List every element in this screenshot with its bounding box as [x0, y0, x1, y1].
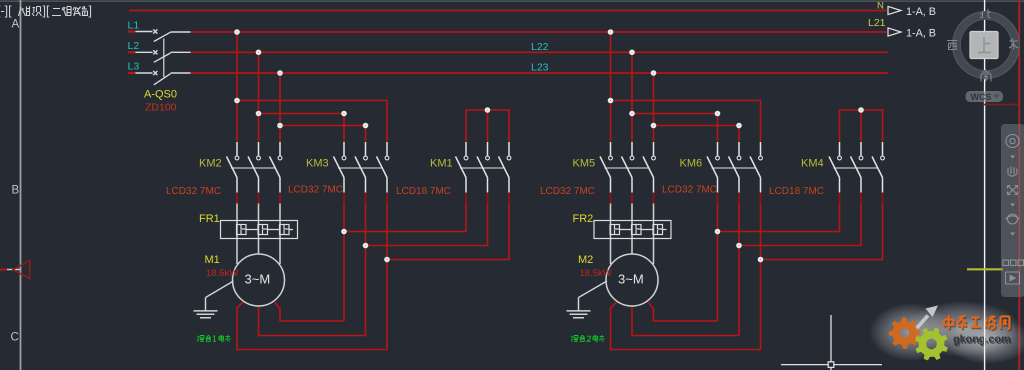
svg-text:LCD18 7MC: LCD18 7MC	[396, 186, 451, 197]
junction dot centers	[236, 31, 861, 260]
svg-text:LCD32 7MC: LCD32 7MC	[166, 186, 221, 197]
svg-text:M2: M2	[578, 254, 593, 266]
svg-text:1-A, B: 1-A, B	[906, 6, 936, 18]
ViewCube compass ring	[957, 16, 1016, 75]
wire: L21 rail	[191, 31, 887, 33]
ViewCube char 上	[978, 37, 991, 53]
svg-text:M1: M1	[205, 254, 220, 266]
svg-text:N: N	[877, 0, 884, 11]
svg-text:1-A, B: 1-A, B	[906, 27, 936, 39]
ViewCube top face square	[970, 32, 998, 59]
svg-text:L21: L21	[868, 17, 886, 29]
WCS box	[966, 91, 1004, 102]
label 混合2 电机 (mixer 2 motor, green CJK)	[571, 335, 604, 342]
wire: L1 branch to KM3 pole3	[237, 101, 387, 142]
junction: KM3 output to KM1 link tees	[341, 229, 390, 263]
svg-text:FR1: FR1	[199, 213, 220, 225]
wire: L2 drop to KM2 pole2	[258, 52, 260, 141]
svg-text:L3: L3	[128, 60, 140, 72]
white crosshair-extension vertical line	[984, 0, 986, 370]
svg-text:C: C	[11, 332, 19, 344]
navbar orbit icon	[1008, 214, 1018, 224]
watermark glow cloud	[869, 303, 953, 361]
svg-text:L1: L1	[128, 20, 140, 32]
yellow-green line near right edge	[967, 268, 1003, 270]
svg-text:3~M: 3~M	[618, 272, 644, 287]
svg-text:LCD18 7MC: LCD18 7MC	[769, 186, 824, 197]
svg-text:A-QS0: A-QS0	[144, 89, 177, 101]
ViewCube char 南	[981, 70, 991, 82]
contactor KM1	[456, 142, 511, 193]
watermark green gear	[915, 328, 948, 361]
wire: L2 drop to KM5 pole2	[631, 52, 633, 141]
svg-text:A: A	[12, 19, 20, 31]
white wires KM5 to motor M2 through FR2	[611, 204, 654, 265]
contactor KM3	[334, 142, 389, 193]
left off-page arrow at sheet edge	[0, 269, 7, 271]
navbar pan hand icon	[1008, 167, 1017, 177]
svg-text:gkong.com: gkong.com	[953, 334, 1011, 346]
thermal relay FR2	[594, 221, 671, 239]
svg-text:]: ]	[89, 4, 92, 18]
junction: L1/L2/L3 rail taps (left group)	[234, 29, 283, 76]
junction: KM1 star bus tee	[485, 107, 491, 113]
ViewCube char 东	[1009, 39, 1019, 50]
contactor KM6	[707, 142, 762, 193]
navigation bar panel	[1001, 124, 1024, 297]
svg-text:ZD100: ZD100	[145, 102, 177, 114]
wire: L3 branch to KM6 pole2	[654, 126, 740, 142]
svg-text:18.5kW: 18.5kW	[580, 268, 612, 279]
wire: L3 drop to KM5 pole3	[653, 73, 655, 142]
svg-text:][: ][	[43, 4, 50, 18]
wire: KM1 star-point bus	[466, 110, 509, 142]
ViewCube char 西	[947, 41, 958, 50]
watermark swoosh arrow	[917, 316, 928, 329]
junction: KM3 feeder corners	[341, 111, 368, 129]
navbar wheel icon	[1006, 135, 1019, 148]
svg-text:3~M: 3~M	[245, 272, 271, 287]
svg-text:[-][: [-][	[0, 4, 12, 18]
junction: KM6 feeder corners	[715, 111, 742, 129]
sheet top border line	[0, 0, 1024, 2]
svg-text:KM6: KM6	[680, 158, 703, 170]
svg-text:LCD32 7MC: LCD32 7MC	[662, 185, 717, 196]
wire: L1 branch to KM6 pole3	[611, 101, 761, 142]
svg-text:KM1: KM1	[430, 158, 453, 170]
contactor KM2	[227, 142, 282, 193]
navbar zoom icon	[1008, 186, 1018, 195]
svg-text:L2: L2	[128, 40, 140, 52]
svg-text:L23: L23	[531, 62, 549, 74]
wire: KM4 star-point bus	[840, 110, 883, 142]
svg-text:L22: L22	[531, 41, 549, 53]
navbar play icon	[1006, 272, 1020, 284]
wire: L1 drop to KM5 pole1	[610, 32, 612, 142]
wire: L1 drop to KM2 pole1	[236, 32, 238, 142]
motor M1 bottom lead wires	[237, 301, 387, 350]
motor M1	[233, 254, 285, 306]
ground for M1	[206, 281, 234, 298]
wire: KM6 poles down	[718, 204, 761, 350]
wire: N rail	[129, 10, 887, 12]
ViewCube char 北	[980, 9, 991, 18]
watermark orange gear	[889, 317, 920, 348]
junction: KM5 feeder branch tees	[608, 98, 657, 129]
motor M2	[606, 254, 658, 306]
contactor KM5	[600, 142, 655, 193]
svg-text:KM3: KM3	[306, 158, 329, 170]
thermal relay FR1	[221, 221, 298, 239]
AutoCAD crosshair cursor	[781, 315, 882, 370]
off-page arrow to 1-A,B (N rail)	[888, 6, 901, 14]
red sheet border line at right	[1018, 0, 1020, 370]
navbar squares icons	[1003, 260, 1009, 266]
disconnect switch A-QS0 blades and terminals	[135, 29, 190, 84]
svg-text:KM2: KM2	[199, 158, 222, 170]
junction: KM2 feeder branch tees	[234, 98, 283, 129]
off-page arrow to 1-A,B (L21 rail)	[888, 28, 901, 36]
wire: L22 rail	[191, 51, 889, 53]
svg-text:18.5kW: 18.5kW	[206, 268, 238, 279]
junction: L1/L2/L3 rail taps (right group)	[608, 29, 657, 76]
motor M2 bottom lead wires	[611, 301, 761, 350]
wire: KM3-KM1 links	[344, 204, 509, 260]
wire: KM3 pole1 down to node/motor (U-level)	[344, 204, 387, 350]
contactor KM4	[829, 142, 884, 193]
ground for M2	[579, 281, 608, 298]
junction: KM4 star bus tee	[858, 107, 864, 113]
wire: KM6-KM4 links	[718, 204, 883, 260]
svg-text:WCS: WCS	[971, 92, 992, 102]
wire: L3 branch to KM3 pole2	[280, 126, 366, 142]
svg-text:B: B	[12, 185, 20, 197]
svg-text:LCD32 7MC: LCD32 7MC	[288, 185, 343, 196]
wire: L23 rail	[191, 72, 889, 74]
svg-text:FR2: FR2	[573, 213, 594, 225]
sheet left border ruler line	[20, 0, 22, 370]
disconnect switch A-QS0 input stubs (red)	[128, 32, 136, 74]
wire: L2 branch to KM3 pole1	[259, 114, 345, 142]
wire: L2 branch to KM6 pole1	[632, 114, 718, 142]
junction: KM6 output to KM4 link tees	[715, 229, 764, 263]
dark red stubs below all contacts	[237, 193, 883, 204]
white wires KM2 to motor M1 through FR1	[237, 204, 280, 265]
svg-text:LCD32 7MC: LCD32 7MC	[540, 186, 595, 197]
svg-text:KM4: KM4	[801, 158, 824, 170]
label 混合1 电机 (mixer 1 motor, green CJK)	[197, 335, 230, 342]
watermark text 中华工控网	[945, 317, 1011, 331]
wire: L3 drop to KM2 pole3	[279, 73, 281, 142]
svg-text:KM5: KM5	[573, 158, 596, 170]
